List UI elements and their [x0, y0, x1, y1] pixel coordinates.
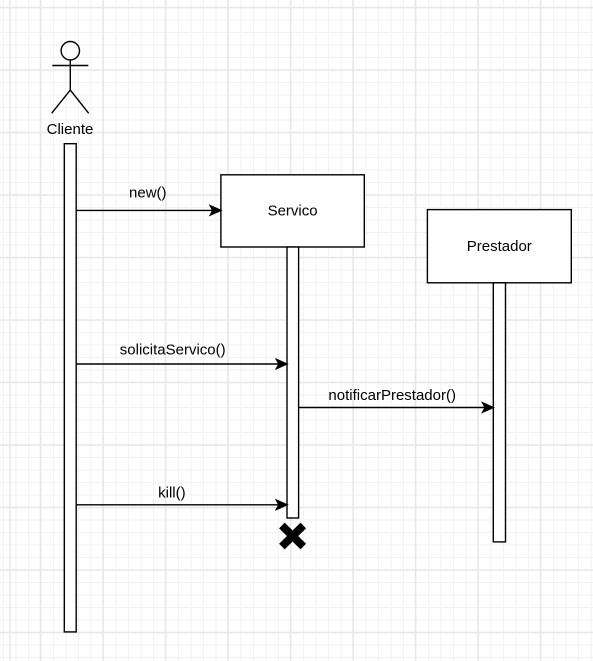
message arrow kill()	[76, 500, 287, 509]
svg-text:Prestador: Prestador	[467, 238, 532, 255]
object box Prestador	[427, 210, 571, 283]
message arrow notificarPrestador()	[299, 403, 494, 412]
actor Cliente (stick figure)	[52, 42, 89, 114]
svg-text:Servico: Servico	[268, 203, 318, 220]
svg-text:solicitaServico(): solicitaServico()	[120, 341, 226, 358]
svg-text:notificarPrestador(): notificarPrestador()	[328, 387, 456, 404]
object box Servico	[221, 175, 364, 247]
message arrow new()	[76, 206, 221, 215]
svg-text:Cliente: Cliente	[47, 121, 94, 138]
svg-text:new(): new()	[129, 185, 167, 202]
activation bar Cliente	[64, 144, 76, 632]
svg-text:kill(): kill()	[158, 485, 186, 502]
message arrow solicitaServico()	[76, 359, 287, 368]
destruction marker X	[282, 526, 303, 547]
activation bar Servico	[287, 247, 299, 518]
activation bar Prestador	[493, 283, 505, 542]
